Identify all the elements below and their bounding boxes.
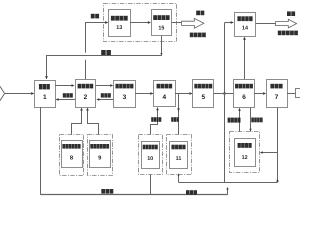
label return sludge 1-2 bbox=[63, 93, 73, 97]
dash-dot enclosure box 11 bbox=[167, 135, 192, 175]
wire box3 to box4 bbox=[135, 93, 153, 95]
svg-text:14: 14 bbox=[242, 26, 248, 32]
svg-text:2: 2 bbox=[84, 94, 88, 101]
box 10 ozone generator bbox=[142, 142, 160, 169]
wire box12 up to box6 left line bbox=[239, 108, 241, 131]
label discharge left bbox=[101, 189, 113, 194]
wire bottom drain line bbox=[41, 194, 228, 196]
label above reuse block arrow bbox=[287, 11, 295, 16]
wire box6 down to box12 right line bbox=[250, 108, 252, 132]
box 15 filter press bbox=[152, 10, 172, 36]
wire influent to box1 bbox=[5, 93, 34, 95]
box 5 biological aerated filter bbox=[193, 80, 214, 108]
wire box1 drain descender bbox=[40, 107, 42, 195]
wire box4 outlet line down to box11 bbox=[178, 94, 180, 135]
outlet stub box at right edge bbox=[296, 89, 302, 98]
block arrow reuse water outgoing bbox=[276, 19, 297, 28]
wire box6 up to box14 bottom bbox=[244, 38, 246, 80]
wire box8 up to box2 bbox=[72, 109, 82, 135]
wire long vertical from main line junction down bbox=[224, 94, 226, 183]
box 13 sludge thickener bbox=[109, 10, 131, 37]
box 1 regulating tank bbox=[35, 81, 56, 108]
box 9 carbon source dosing system bbox=[90, 141, 111, 168]
box 14 reuse water tank bbox=[235, 13, 256, 37]
wire box7 to outlet stub box bbox=[287, 93, 295, 95]
wire filtrate return from box15 down-left to box1 bbox=[161, 36, 163, 56]
dash-dot enclosure box 12 bbox=[230, 132, 260, 173]
label on box11 drop line bbox=[171, 117, 179, 122]
wire main line tap up to box14 bbox=[224, 23, 226, 94]
label on box10 riser bbox=[151, 117, 161, 122]
label between box12 risers bbox=[228, 118, 241, 123]
svg-text:10: 10 bbox=[147, 156, 153, 162]
box 4 ozone contact tank bbox=[154, 81, 176, 107]
svg-text:12: 12 bbox=[242, 155, 248, 161]
svg-text:5: 5 bbox=[201, 94, 205, 101]
box 2 hydrolysis acidification tank bbox=[76, 80, 96, 108]
wire horizontal collector bbox=[179, 182, 278, 184]
wire branch into box12 right side bbox=[261, 152, 278, 154]
svg-text:1: 1 bbox=[43, 94, 47, 101]
svg-text:13: 13 bbox=[116, 25, 122, 31]
label below block arrow bbox=[190, 33, 206, 38]
wire box2 to box1 return bbox=[56, 99, 75, 101]
wire box5 to box6 bbox=[214, 93, 233, 95]
wire box13 to box15 bbox=[130, 22, 150, 24]
svg-text:7: 7 bbox=[275, 94, 279, 101]
wire box14 to outgoing block arrow bbox=[256, 23, 275, 25]
wire box2 to box3 forward bbox=[96, 85, 113, 87]
box 3 aeration tank bbox=[114, 81, 136, 108]
wire box11 bottom stub bbox=[178, 175, 180, 183]
label below reuse block arrow bbox=[278, 31, 298, 36]
wire box3 to box2 return bbox=[97, 99, 115, 101]
wire box7 descender bbox=[277, 108, 279, 183]
wire box1 to box2 forward bbox=[55, 85, 74, 87]
box 6 sand filter bbox=[234, 80, 255, 108]
dash-dot enclosure box 10 bbox=[139, 135, 163, 175]
block arrow mud cake outgoing bbox=[182, 18, 204, 28]
label return flow 2-3 bbox=[101, 93, 111, 97]
wire box4 to box5 bbox=[175, 93, 192, 95]
label discharge right bbox=[186, 190, 197, 194]
box 12 compressed air system bbox=[235, 139, 256, 167]
label reuse on return line bbox=[101, 50, 111, 55]
box 8 dosing system bbox=[62, 141, 83, 168]
dash-dot enclosure box 8 bbox=[60, 135, 84, 176]
svg-text:15: 15 bbox=[158, 25, 164, 31]
wire box9 up to box2 bbox=[88, 109, 99, 135]
dash-dot enclosure box 9 bbox=[88, 135, 113, 176]
svg-text:6: 6 bbox=[242, 94, 246, 101]
block arrow influent at left edge bbox=[0, 86, 5, 100]
box 11 regeneration system bbox=[170, 142, 188, 169]
wire box10 drain descender bbox=[150, 175, 152, 195]
wire box10 up to box4 bbox=[151, 108, 158, 135]
sludge treatment dash-dot enclosure bbox=[104, 4, 177, 42]
svg-text:4: 4 bbox=[163, 94, 167, 101]
box 7 disinfection tank bbox=[267, 80, 288, 108]
label sludge on feed line bbox=[91, 14, 99, 19]
svg-text:11: 11 bbox=[176, 156, 182, 162]
svg-text:3: 3 bbox=[123, 94, 127, 101]
wire box6 to box7 bbox=[255, 93, 266, 95]
label right of box12 risers bbox=[251, 118, 262, 123]
wire sludge feed riser from box2 to box13 bbox=[85, 22, 87, 53]
wire box15 to block arrow bbox=[172, 22, 182, 24]
label above block arrow bbox=[196, 11, 204, 16]
wire drain end stub with up arrow bbox=[227, 188, 229, 195]
